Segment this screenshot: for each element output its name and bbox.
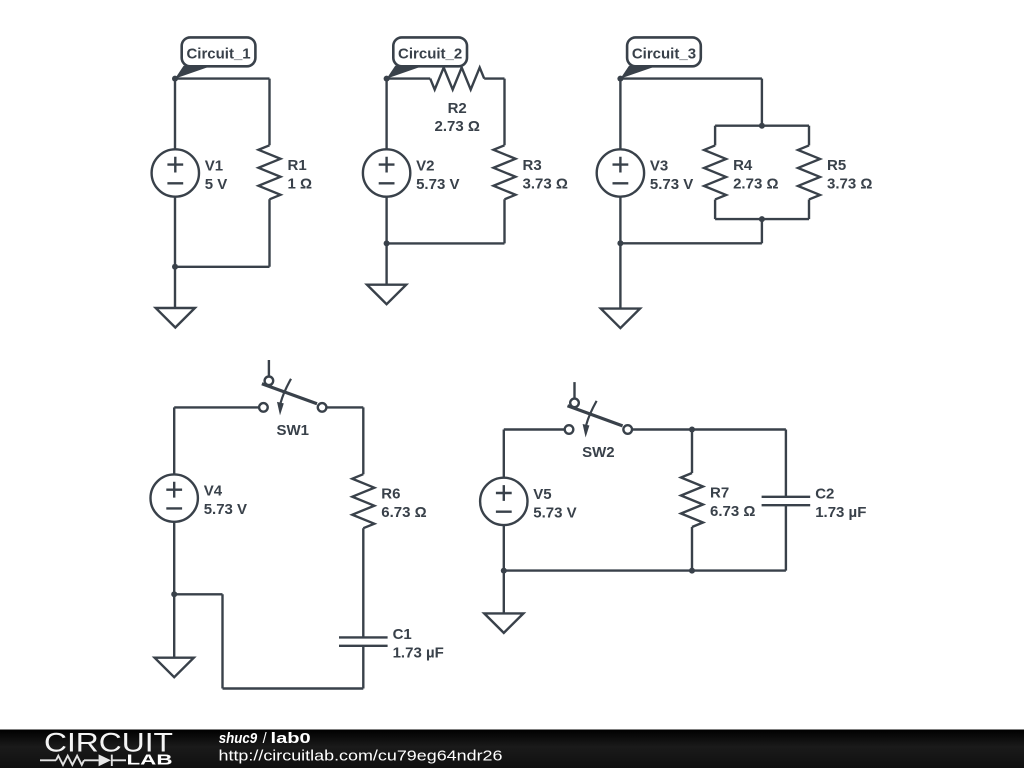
resistor R1 xyxy=(259,145,281,199)
svg-text:R4: R4 xyxy=(733,157,753,174)
svg-text:V5: V5 xyxy=(533,486,551,503)
svg-text:1.73 µF: 1.73 µF xyxy=(393,645,444,662)
junction bottom circuit 1 xyxy=(172,264,178,270)
voltage source V2 xyxy=(363,149,410,196)
svg-text:1.73 µF: 1.73 µF xyxy=(815,504,866,521)
wire node to V3 top xyxy=(619,79,621,150)
junction bottom circuit 4 xyxy=(171,591,177,597)
ground circuit 1 xyxy=(156,308,195,328)
svg-text:C1: C1 xyxy=(393,626,412,643)
wire V2 bottom to ground xyxy=(385,197,387,285)
wire V5 bottom to ground xyxy=(503,525,505,613)
wire V5 top up xyxy=(503,430,505,478)
voltage source V3 xyxy=(597,149,644,196)
resistor R6 xyxy=(352,474,374,528)
junction parallel bottom xyxy=(759,216,765,222)
wire parallel bottom rail xyxy=(715,218,809,220)
capacitor C1 xyxy=(339,637,388,645)
wire R1 bottom down xyxy=(268,199,270,266)
logo diode triangle xyxy=(99,754,111,766)
svg-text:3.73 Ω: 3.73 Ω xyxy=(827,175,872,192)
wire up to node rail xyxy=(221,594,223,688)
svg-text:V4: V4 xyxy=(204,483,223,500)
wire bottom rail circuit 2 xyxy=(387,242,505,244)
resistor R7 xyxy=(681,473,703,527)
svg-text:5 V: 5 V xyxy=(205,176,228,193)
switch SW2 xyxy=(565,382,632,437)
svg-text:SW2: SW2 xyxy=(582,444,615,461)
ground circuit 5 xyxy=(484,613,523,633)
svg-text:3.73 Ω: 3.73 Ω xyxy=(523,175,568,192)
wire down to parallel top xyxy=(761,79,763,126)
footer bar xyxy=(0,730,1024,768)
node top-left circuit 2 xyxy=(384,76,390,82)
junction R7 top xyxy=(689,427,695,433)
node top-left circuit 1 xyxy=(172,76,178,82)
svg-text:5.73 V: 5.73 V xyxy=(650,176,693,193)
svg-text:R7: R7 xyxy=(710,485,729,502)
callout bubble Circuit_3 xyxy=(620,37,700,78)
svg-text:C2: C2 xyxy=(815,486,834,503)
wire SW2 right to C2 corner xyxy=(632,428,786,430)
wire R6 bottom to C1 xyxy=(362,528,364,637)
wire top rail circuit 3 xyxy=(620,77,762,79)
svg-text:2.73 Ω: 2.73 Ω xyxy=(733,175,778,192)
wire V4 bottom to ground xyxy=(173,522,175,658)
capacitor C2 xyxy=(762,497,811,505)
wire to SW1 left terminal xyxy=(174,406,263,408)
wire SW1 right to corner xyxy=(326,406,363,408)
wire top rail circuit 1 xyxy=(175,77,270,79)
node top-left circuit 3 xyxy=(617,76,623,82)
wire stub to R5 top xyxy=(808,126,810,146)
wire right branch down to R1 xyxy=(268,79,270,146)
wire down to R6 xyxy=(362,407,364,474)
wire V4 top up xyxy=(173,407,175,474)
svg-text:R1: R1 xyxy=(288,157,307,174)
svg-text:2.73 Ω: 2.73 Ω xyxy=(435,118,480,135)
svg-text:1 Ω: 1 Ω xyxy=(288,175,313,192)
ground circuit 4 xyxy=(155,658,194,678)
svg-text:5.73 V: 5.73 V xyxy=(204,501,247,518)
svg-text:V3: V3 xyxy=(650,158,668,175)
svg-text:shuc9: shuc9 xyxy=(219,731,258,747)
wire R5 bottom stub xyxy=(808,200,810,220)
wire to SW2 left terminal xyxy=(504,428,569,430)
svg-text:R3: R3 xyxy=(523,157,542,174)
junction bottom circuit 3 xyxy=(617,240,623,246)
wire stub to R4 top xyxy=(714,126,716,146)
svg-text:Circuit_3: Circuit_3 xyxy=(632,45,696,62)
svg-text:R6: R6 xyxy=(381,486,400,503)
wire R3 bottom down xyxy=(503,199,505,243)
wire bottom rail circuit 5 xyxy=(504,569,786,571)
wire to V4 bottom node xyxy=(174,593,222,595)
svg-text:R2: R2 xyxy=(448,100,467,117)
junction parallel top xyxy=(759,123,765,129)
svg-text:5.73 V: 5.73 V xyxy=(533,504,576,521)
wire R7 bottom down xyxy=(691,527,693,571)
wire parallel top rail xyxy=(715,124,809,126)
svg-text:6.73 Ω: 6.73 Ω xyxy=(710,503,755,520)
svg-text:http://circuitlab.com/cu79eg64: http://circuitlab.com/cu79eg64ndr26 xyxy=(219,748,503,765)
svg-text:Circuit_1: Circuit_1 xyxy=(186,45,250,62)
logo schematic: wire resistor diode xyxy=(40,755,126,766)
svg-text:R5: R5 xyxy=(827,157,846,174)
callout bubble Circuit_1 xyxy=(175,37,255,78)
resistor R3 xyxy=(494,145,516,199)
wire bottom rail circuit 4 xyxy=(223,687,364,689)
svg-text:V1: V1 xyxy=(205,158,223,175)
svg-text:Circuit_2: Circuit_2 xyxy=(398,45,462,62)
ground circuit 2 xyxy=(367,285,406,305)
svg-text:5.73 V: 5.73 V xyxy=(416,176,459,193)
wire R2 to corner xyxy=(484,77,504,79)
svg-text:LAB: LAB xyxy=(127,752,173,768)
svg-text:V2: V2 xyxy=(416,158,434,175)
resistor R5 xyxy=(798,145,820,199)
callout bubble Circuit_2 xyxy=(387,37,467,78)
wire V3 bottom to ground xyxy=(619,197,621,309)
wire parallel bottom down xyxy=(761,219,763,243)
wire down to R7 xyxy=(691,430,693,474)
junction R7 bottom xyxy=(689,568,695,574)
svg-text:6.73 Ω: 6.73 Ω xyxy=(381,504,426,521)
wire node to V1 top xyxy=(174,79,176,150)
wire R4 bottom stub xyxy=(714,200,716,220)
ground circuit 3 xyxy=(601,309,640,329)
wire bottom rail circuit 1 xyxy=(175,266,270,268)
wire V1 bottom to ground xyxy=(174,197,176,308)
svg-text:lab0: lab0 xyxy=(271,731,311,747)
wire node to R2 xyxy=(387,77,431,79)
wire down to C2 xyxy=(785,430,787,497)
wire C2 bottom down xyxy=(785,505,787,570)
wire node to V2 top xyxy=(385,79,387,150)
wire bottom rail circuit 3 xyxy=(620,242,762,244)
voltage source V4 xyxy=(151,474,198,521)
wire down to R3 xyxy=(503,79,505,146)
wire C1 bottom down xyxy=(362,646,364,689)
junction bottom circuit 2 xyxy=(384,240,390,246)
voltage source V1 xyxy=(152,149,199,196)
junction V5 bottom xyxy=(501,568,507,574)
voltage source V5 xyxy=(480,478,527,525)
svg-text:SW1: SW1 xyxy=(276,422,309,439)
switch SW1 xyxy=(259,360,326,415)
resistor R2 xyxy=(430,68,484,90)
resistor R4 xyxy=(704,145,726,199)
